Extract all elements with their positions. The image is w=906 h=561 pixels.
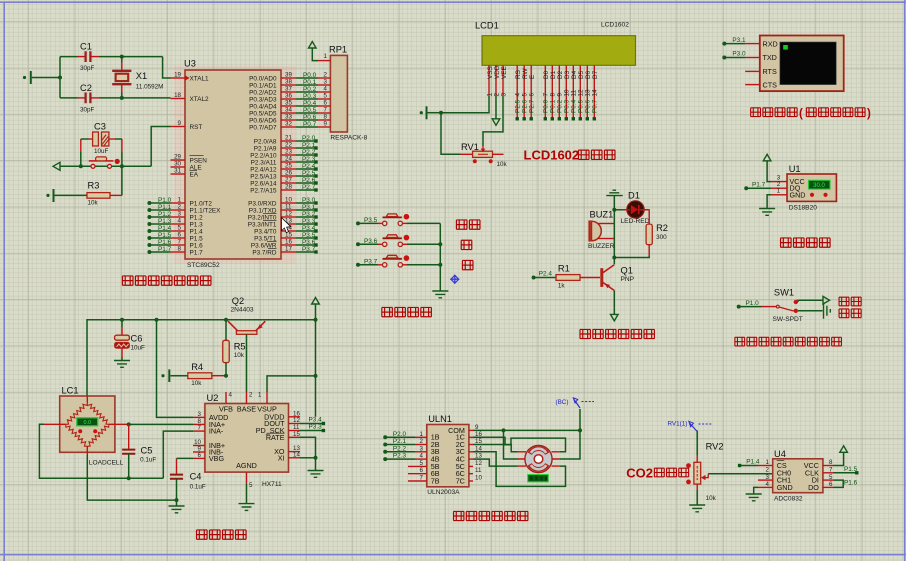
svg-text:P2.1: P2.1: [302, 142, 316, 149]
svg-text:Q2: Q2: [232, 296, 244, 306]
svg-text:1: 1: [324, 53, 328, 60]
svg-text:P2.0/A8: P2.0/A8: [254, 138, 277, 145]
svg-text:8: 8: [324, 114, 328, 121]
svg-text:12: 12: [285, 211, 292, 218]
LCD pins: [486, 65, 599, 120]
title 声光报警电路: [580, 329, 655, 338]
svg-text:P0.0: P0.0: [543, 99, 550, 113]
svg-text:TXD: TXD: [763, 53, 777, 62]
svg-text:26: 26: [285, 170, 292, 177]
svg-text:XTAL2: XTAL2: [190, 96, 210, 103]
svg-text:P1.1: P1.1: [158, 204, 172, 211]
svg-text:U2: U2: [207, 393, 219, 403]
svg-text:AGND: AGND: [236, 461, 257, 470]
LCD VEE wire to RV1 wiper: [483, 96, 503, 146]
mouse cursor: [282, 218, 291, 233]
stepper display: [528, 475, 549, 482]
P0 wires U3 to RP1: [296, 72, 318, 128]
svg-text:C3: C3: [94, 122, 106, 132]
svg-text:P3.0: P3.0: [302, 197, 316, 204]
net P3.3: [300, 424, 325, 432]
svg-text:1: 1: [777, 188, 781, 195]
svg-text:17: 17: [285, 246, 292, 253]
power down arrow (Q1 emitter): [611, 307, 619, 321]
stepper motor M1: [518, 445, 560, 472]
svg-text:P1.4: P1.4: [190, 228, 204, 235]
switch SW1 SW-SPDT: [762, 288, 803, 323]
ground (AGND): [239, 484, 255, 510]
svg-text:9: 9: [557, 93, 564, 97]
svg-text:P1.6: P1.6: [158, 239, 172, 246]
svg-text:2: 2: [178, 204, 182, 211]
svg-text:10k: 10k: [706, 495, 717, 502]
svg-text:P2.3: P2.3: [393, 453, 407, 460]
svg-text:RS: RS: [515, 70, 522, 79]
svg-text:X1: X1: [136, 71, 147, 81]
svg-text:HX711: HX711: [262, 481, 282, 488]
capacitor C3 (electrolytic): [81, 122, 122, 156]
capacitor C1: [60, 42, 163, 73]
svg-text:0.1uF: 0.1uF: [190, 484, 206, 491]
svg-text:P2.7/A15: P2.7/A15: [250, 187, 277, 194]
svg-text:34: 34: [285, 107, 292, 114]
wire 2C to motor: [473, 445, 518, 452]
svg-text:(: (: [799, 108, 803, 120]
svg-text:DO: DO: [808, 483, 819, 492]
svg-text:P1.6: P1.6: [190, 242, 204, 249]
ground (C4/LC1): [169, 500, 185, 513]
crystal X1: [112, 55, 163, 100]
svg-text:P3.5: P3.5: [364, 217, 378, 224]
8051 MCU U3: [171, 59, 297, 270]
svg-text:14: 14: [293, 451, 300, 458]
svg-text:P1.6: P1.6: [844, 479, 858, 486]
net P1.4: [738, 459, 760, 467]
svg-text:2: 2: [420, 438, 424, 445]
svg-text:XTAL1: XTAL1: [190, 75, 210, 82]
svg-text:4: 4: [420, 453, 424, 460]
label 减: [462, 260, 473, 270]
wire AVDD: [157, 320, 194, 418]
wire VBG: [177, 457, 194, 459]
svg-text:P3.3/INT1: P3.3/INT1: [248, 221, 277, 228]
svg-text:P3.5/T1: P3.5/T1: [254, 235, 277, 242]
svg-text:D1: D1: [628, 190, 640, 200]
svg-text:CTS: CTS: [763, 80, 778, 89]
svg-text:P3.2/INT0: P3.2/INT0: [248, 214, 277, 221]
net P3.1: [722, 37, 746, 46]
svg-text:10k: 10k: [497, 161, 508, 168]
resistor R2: [614, 210, 668, 258]
svg-text:P1.1/T2EX: P1.1/T2EX: [190, 207, 222, 214]
svg-text:D7: D7: [592, 70, 599, 79]
svg-text:Q1: Q1: [621, 265, 633, 275]
svg-text:3: 3: [420, 445, 424, 452]
svg-text:RV1: RV1: [461, 142, 479, 152]
svg-text:3: 3: [198, 411, 202, 418]
svg-text:11: 11: [571, 89, 578, 96]
resistor R5: [223, 320, 246, 378]
wire Q2 base to U2: [246, 334, 248, 392]
transistor Q2 2N4403: [228, 296, 265, 335]
push button P3.5: [378, 214, 441, 226]
svg-text:P0.1: P0.1: [303, 79, 317, 86]
svg-text:P0.7: P0.7: [592, 99, 599, 113]
wire XTAL1: [163, 57, 171, 78]
svg-text:6: 6: [178, 232, 182, 239]
svg-text:2: 2: [493, 93, 500, 97]
svg-text:11: 11: [475, 467, 482, 474]
svg-text:BASE: BASE: [237, 405, 256, 414]
net P1.5: [834, 466, 859, 475]
svg-text:RATE: RATE: [266, 433, 285, 442]
power terminal (U1): [763, 154, 771, 181]
svg-text:R1: R1: [558, 263, 570, 273]
svg-text:10uF: 10uF: [94, 148, 109, 155]
svg-text:1: 1: [766, 459, 770, 466]
svg-text:25: 25: [285, 163, 292, 170]
svg-text:RXD: RXD: [763, 39, 778, 48]
svg-text:P3.7: P3.7: [302, 246, 316, 253]
svg-text:0.0: 0.0: [83, 420, 91, 426]
svg-text:PSEN: PSEN: [190, 157, 208, 164]
svg-text:P2.7: P2.7: [302, 184, 316, 191]
svg-text:RST: RST: [190, 124, 203, 131]
svg-text:12: 12: [578, 89, 585, 97]
label 设置: [456, 220, 480, 230]
svg-text:14: 14: [592, 89, 599, 97]
svg-text:P1.7: P1.7: [752, 181, 766, 188]
svg-text:BUZ1: BUZ1: [590, 210, 614, 220]
svg-text:11.0592M: 11.0592M: [136, 84, 164, 91]
svg-text:CO2: CO2: [626, 466, 653, 481]
wire LC1 bottom: [87, 455, 178, 502]
wire: [58, 57, 62, 98]
svg-text:1k: 1k: [558, 283, 566, 290]
svg-text:30: 30: [174, 161, 181, 168]
P2 net stubs: [296, 135, 318, 192]
svg-text:P0.7: P0.7: [303, 121, 317, 128]
svg-text:22: 22: [285, 142, 292, 149]
svg-text:1: 1: [258, 392, 262, 399]
push button P3.6: [378, 235, 441, 247]
reset terminal arrow: [53, 162, 151, 170]
svg-text:XI: XI: [278, 453, 285, 462]
svg-text:7B: 7B: [431, 476, 440, 485]
svg-text:P1.5: P1.5: [190, 235, 204, 242]
serial port window VT1: [760, 36, 844, 92]
ground terminal (crystal circuit): [23, 71, 60, 84]
LCD VSS wire to ground: [420, 96, 489, 119]
svg-text:VEE: VEE: [501, 66, 508, 79]
svg-text:4: 4: [229, 392, 233, 399]
svg-text:6: 6: [420, 467, 424, 474]
svg-text:1: 1: [486, 93, 493, 97]
svg-text:P0.2: P0.2: [303, 86, 317, 93]
svg-text:4: 4: [324, 86, 328, 93]
svg-text:P2.3/A11: P2.3/A11: [251, 159, 277, 166]
svg-text:4: 4: [515, 93, 522, 97]
svg-text:31: 31: [174, 168, 181, 175]
svg-text:15: 15: [293, 431, 300, 438]
resistor R3: [46, 166, 122, 206]
svg-text:P2.2: P2.2: [302, 149, 316, 156]
wire ground to RV1: [441, 113, 461, 155]
svg-text:28: 28: [285, 184, 292, 191]
serial pins: [745, 44, 760, 85]
svg-text:P2.5/A13: P2.5/A13: [250, 173, 277, 180]
svg-text:P2.1: P2.1: [393, 438, 407, 445]
svg-text:P1.2: P1.2: [190, 214, 204, 221]
svg-text:RW: RW: [522, 68, 529, 79]
net P1.6 (DI-DO bracket): [834, 479, 858, 487]
svg-text:P3.3: P3.3: [302, 218, 316, 225]
svg-text:P0.4: P0.4: [571, 99, 578, 113]
svg-text:EA: EA: [190, 171, 199, 178]
svg-text:7: 7: [829, 467, 833, 474]
svg-text:P3.6: P3.6: [302, 239, 316, 246]
label 有人: [839, 309, 861, 318]
net P3.5: [356, 217, 378, 225]
svg-text:D1: D1: [550, 70, 557, 79]
power arrow 无人 branch: [798, 296, 830, 304]
svg-text:2: 2: [766, 467, 770, 474]
svg-text:P1.4: P1.4: [746, 459, 760, 466]
svg-text:10k: 10k: [234, 352, 245, 359]
svg-text:30pF: 30pF: [80, 106, 95, 113]
net P1.7: [744, 181, 771, 190]
svg-text:P0.4: P0.4: [303, 100, 317, 107]
net P3.4: [300, 417, 325, 425]
resistor pack RP1: [318, 45, 368, 142]
svg-text:P3.7: P3.7: [364, 258, 378, 265]
ground (C6): [114, 361, 130, 368]
svg-text:39: 39: [285, 72, 292, 79]
svg-text:DS18B20: DS18B20: [789, 205, 818, 212]
wire buzzer/led junction: [612, 208, 616, 264]
svg-text:P2.6: P2.6: [521, 99, 528, 113]
svg-text:P2.4: P2.4: [539, 271, 553, 278]
svg-text:7: 7: [543, 93, 550, 97]
svg-text:RP1: RP1: [329, 45, 347, 55]
svg-text:R3: R3: [88, 181, 100, 191]
title CO2值调节: [626, 466, 688, 481]
svg-text:P1.4: P1.4: [158, 225, 172, 232]
label 无人: [839, 297, 861, 306]
svg-text:D0: D0: [543, 70, 550, 79]
net P1.0: [737, 300, 762, 309]
darlington array ULN1 ULN2003A: [408, 414, 482, 496]
svg-text:D6: D6: [585, 70, 592, 79]
svg-text:4: 4: [178, 218, 182, 225]
title 独立按键: [382, 307, 432, 317]
svg-text:2: 2: [249, 392, 253, 399]
svg-text:R4: R4: [191, 362, 203, 372]
svg-text:5: 5: [249, 482, 253, 489]
svg-text:P2.4/A12: P2.4/A12: [250, 166, 277, 173]
title 四项步进电机: [453, 511, 528, 520]
svg-text:P2.6: P2.6: [302, 177, 316, 184]
svg-text:3: 3: [178, 211, 182, 218]
svg-text:12: 12: [475, 460, 482, 467]
ground (U4 GND): [746, 487, 762, 500]
title 单片机最小系统: [122, 276, 211, 286]
wire COM: [473, 428, 582, 432]
svg-text:GND: GND: [790, 190, 806, 199]
svg-text:C5: C5: [141, 446, 153, 456]
svg-text:9: 9: [178, 120, 182, 127]
svg-text:6: 6: [529, 93, 536, 97]
svg-text:P3.6: P3.6: [364, 238, 378, 245]
load cell LC1: [44, 386, 129, 467]
ADC U4 ADC0832: [758, 449, 834, 503]
push button P3.7: [378, 255, 441, 267]
svg-text:5: 5: [829, 474, 833, 481]
svg-text:C1: C1: [80, 42, 92, 52]
svg-text:P3.1: P3.1: [302, 204, 316, 211]
svg-text:P1.5: P1.5: [844, 466, 858, 473]
svg-text:): ): [867, 108, 871, 120]
svg-text:13: 13: [585, 89, 592, 97]
transistor Q1 PNP: [602, 265, 635, 308]
svg-text:P3.3: P3.3: [309, 424, 323, 431]
P1 net wires: [147, 197, 171, 254]
svg-text:P0.6: P0.6: [303, 114, 317, 121]
svg-text:1: 1: [178, 197, 182, 204]
HX711 U2: [193, 392, 300, 490]
ground 有人 branch: [798, 303, 830, 319]
svg-text:SW-SPDT: SW-SPDT: [773, 316, 803, 323]
svg-text:LOADCELL: LOADCELL: [89, 460, 124, 467]
svg-text:P2.2/A10: P2.2/A10: [250, 152, 277, 159]
P3 net stubs: [296, 197, 318, 254]
svg-text:10k: 10k: [88, 200, 99, 207]
svg-text:D5: D5: [578, 70, 585, 79]
svg-text:P0.1/AD1: P0.1/AD1: [249, 82, 277, 89]
svg-text:12: 12: [293, 417, 300, 424]
svg-text:D3: D3: [564, 70, 571, 79]
svg-text:10k: 10k: [191, 380, 202, 387]
svg-text:27: 27: [285, 177, 292, 184]
ground (alarm top, inverted): [606, 190, 622, 210]
svg-text:P0.1: P0.1: [550, 99, 557, 113]
svg-text:6: 6: [829, 481, 833, 488]
U3 selection highlight: [174, 66, 296, 264]
svg-text:P2.5: P2.5: [302, 170, 316, 177]
capacitor C2: [60, 83, 171, 114]
svg-text:32: 32: [285, 121, 292, 128]
svg-text:P3.4/T0: P3.4/T0: [254, 228, 277, 235]
svg-text:24: 24: [285, 156, 292, 163]
svg-text:P1.7: P1.7: [190, 249, 204, 256]
svg-text:10uF: 10uF: [131, 345, 146, 352]
svg-text:P0.5: P0.5: [578, 99, 585, 113]
wire INA+: [127, 422, 193, 426]
svg-text:P3.7/RD: P3.7/RD: [252, 249, 277, 256]
svg-text:P2.0: P2.0: [302, 135, 316, 142]
svg-text:C4: C4: [190, 472, 202, 482]
title 测温模块: [780, 238, 830, 248]
svg-text:P0.6: P0.6: [585, 99, 592, 113]
svg-text:P0.2/AD2: P0.2/AD2: [249, 89, 277, 96]
svg-text:P1.0: P1.0: [746, 300, 760, 307]
svg-text:1: 1: [420, 431, 424, 438]
svg-text:10: 10: [285, 197, 292, 204]
svg-text:RV1(1): RV1(1): [668, 421, 688, 428]
potentiometer RV2: [686, 431, 773, 506]
svg-text:7C: 7C: [456, 476, 465, 485]
svg-text:D2: D2: [557, 70, 564, 79]
svg-text:21: 21: [285, 135, 292, 142]
svg-text:RV2: RV2: [706, 442, 724, 452]
svg-text:BUZZER: BUZZER: [588, 243, 615, 250]
svg-text:P0.0/AD0: P0.0/AD0: [249, 75, 277, 82]
svg-text:RTS: RTS: [763, 67, 777, 76]
svg-text:P3.1: P3.1: [732, 37, 746, 44]
svg-text:4: 4: [766, 481, 770, 488]
svg-text:35: 35: [285, 100, 292, 107]
net P3.7: [356, 258, 378, 266]
svg-text:P0.0: P0.0: [303, 72, 317, 79]
capacitor C4: [170, 458, 206, 500]
svg-text:LED-RED: LED-RED: [621, 218, 650, 225]
svg-text:6: 6: [198, 452, 202, 459]
svg-text:P0.3: P0.3: [564, 99, 571, 113]
svg-text:P3.4: P3.4: [309, 417, 323, 424]
wire LC1 left to bottom rail: [39, 424, 163, 478]
svg-text:11: 11: [285, 204, 292, 211]
svg-text:5: 5: [178, 225, 182, 232]
power terminal (U4 VCC): [834, 446, 848, 466]
title 串口窗口（模拟手机端）: [751, 108, 871, 120]
svg-text:38: 38: [285, 79, 292, 86]
svg-text:9: 9: [324, 121, 328, 128]
svg-text:STC89C52: STC89C52: [187, 262, 220, 269]
svg-text:P2.6/A14: P2.6/A14: [250, 180, 277, 187]
svg-text:P3.0/RXD: P3.0/RXD: [248, 200, 277, 207]
svg-text:8: 8: [178, 246, 182, 253]
svg-text:P3.5: P3.5: [302, 232, 316, 239]
svg-text:U4: U4: [774, 449, 786, 459]
wire 1C to motor: [473, 437, 566, 452]
svg-text:2: 2: [324, 72, 328, 79]
blue origin marker: [450, 275, 459, 284]
svg-text:(BC): (BC): [556, 399, 569, 406]
wire RST: [151, 127, 170, 167]
wire 4C to motor: [473, 459, 518, 466]
svg-text:5: 5: [420, 460, 424, 467]
LCD VDD power down arrow: [492, 96, 500, 125]
svg-text:19: 19: [174, 72, 181, 79]
svg-text:P3.6/WR: P3.6/WR: [251, 242, 277, 249]
title 称重模块: [196, 530, 246, 540]
svg-text:P3.1/TXD: P3.1/TXD: [249, 207, 277, 214]
temperature sensor U1 DS18B20: [771, 164, 836, 212]
power terminal (weighing): [312, 298, 320, 320]
svg-text:30.0: 30.0: [813, 183, 825, 189]
svg-text:P1.5: P1.5: [158, 232, 172, 239]
svg-text:P1.2: P1.2: [158, 211, 172, 218]
svg-text:P0.7/AD7: P0.7/AD7: [249, 124, 277, 131]
svg-text:LCD1602: LCD1602: [524, 148, 580, 163]
wire COM to motor right: [560, 430, 580, 459]
svg-text:7: 7: [178, 239, 182, 246]
svg-text:30pF: 30pF: [80, 65, 95, 72]
svg-text:INA-: INA-: [209, 427, 224, 436]
svg-text:P0.5/AD5: P0.5/AD5: [249, 110, 277, 117]
svg-text:R5: R5: [234, 342, 246, 352]
svg-text:P1.3: P1.3: [190, 221, 204, 228]
